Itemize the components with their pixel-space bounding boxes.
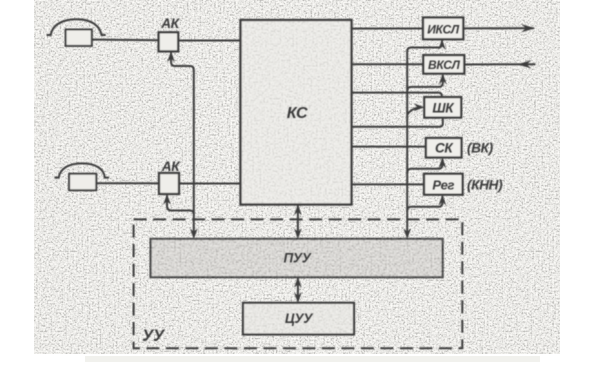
svg-text:ИКСЛ: ИКСЛ xyxy=(427,23,460,37)
branch from AK2 down to bus xyxy=(167,195,194,214)
svg-text:АК: АК xyxy=(161,159,181,174)
svg-text:ЦУУ: ЦУУ xyxy=(285,311,313,326)
branch to SK bottom xyxy=(407,159,442,173)
svg-text:АК: АК xyxy=(160,16,180,31)
arrowhead down into CUU xyxy=(294,292,302,303)
arrowhead left on VKSL trunk xyxy=(517,60,531,68)
svg-text:ШК: ШК xyxy=(432,101,455,116)
svg-text:(ВК): (ВК) xyxy=(467,141,494,156)
arrowhead down into PUU (right bus) xyxy=(403,228,411,239)
telephone set 1 body xyxy=(66,30,92,46)
PUU to CUU double link xyxy=(297,278,299,301)
block AK1 xyxy=(159,32,179,51)
block KC xyxy=(241,20,352,205)
svg-text:ПУУ: ПУУ xyxy=(283,251,311,266)
wire KC to Reg xyxy=(352,183,425,185)
wire KC to VKSL xyxy=(352,63,424,65)
block IKSL xyxy=(423,18,463,40)
outgoing trunk line from IKSL xyxy=(463,27,534,29)
branch to VKSL bottom xyxy=(407,75,443,91)
block Reg xyxy=(424,174,463,195)
arrowhead up into Reg xyxy=(439,195,447,206)
incoming trunk line to VKSL xyxy=(464,63,535,65)
block PUU xyxy=(151,239,443,277)
KC to PUU double link xyxy=(297,206,299,237)
wire phone2 to AK2 xyxy=(96,182,159,184)
arrowhead up into KC bottom xyxy=(294,204,302,215)
wire KC to ShK top xyxy=(352,93,442,98)
arrowhead down into PUU (left bus) xyxy=(190,228,198,239)
block ShK xyxy=(424,97,461,118)
wire AK1 to KC xyxy=(178,40,240,42)
arrowhead up into PUU bottom xyxy=(294,277,302,288)
wire KC to ShK bottom xyxy=(352,118,443,127)
telephone set 2 body xyxy=(69,174,96,191)
control bus vertical (right) xyxy=(407,41,442,237)
svg-text:УУ: УУ xyxy=(142,327,166,345)
block CUU xyxy=(243,303,354,335)
wire KC to SK xyxy=(352,146,426,148)
telephone set 1 (handset arc) xyxy=(47,19,106,35)
branch to Reg bottom xyxy=(407,196,442,211)
arrowhead up into IKSL xyxy=(438,39,446,50)
arrowhead up into SK xyxy=(439,157,447,168)
arrowhead right on IKSL trunk xyxy=(521,24,535,32)
svg-text:КС: КС xyxy=(287,105,308,122)
wire KC to IKSL xyxy=(352,28,424,30)
block AK2 xyxy=(159,173,179,194)
svg-text:(КНН): (КНН) xyxy=(467,178,503,193)
wire phone1 to AK1 xyxy=(92,39,159,42)
arrowhead up into AK1 xyxy=(167,51,175,62)
arrowhead into ShK left xyxy=(414,103,425,111)
telephone set 2 (handset arc) xyxy=(55,163,110,177)
block VKSL xyxy=(423,55,464,74)
curved branch arrow into ShK left xyxy=(407,107,421,114)
arrowhead up into VKSL xyxy=(439,74,447,85)
arrowhead down into PUU (center) xyxy=(294,228,302,239)
subscriber control line vertical (left) xyxy=(171,53,194,237)
block SK xyxy=(426,138,462,158)
wire AK2 to KC xyxy=(179,183,241,185)
dashed UU boundary xyxy=(134,219,463,348)
svg-text:ВКСЛ: ВКСЛ xyxy=(428,58,461,72)
svg-text:Рег: Рег xyxy=(432,178,454,193)
svg-text:СК: СК xyxy=(435,141,454,156)
arrowhead up into AK2 xyxy=(163,194,171,205)
